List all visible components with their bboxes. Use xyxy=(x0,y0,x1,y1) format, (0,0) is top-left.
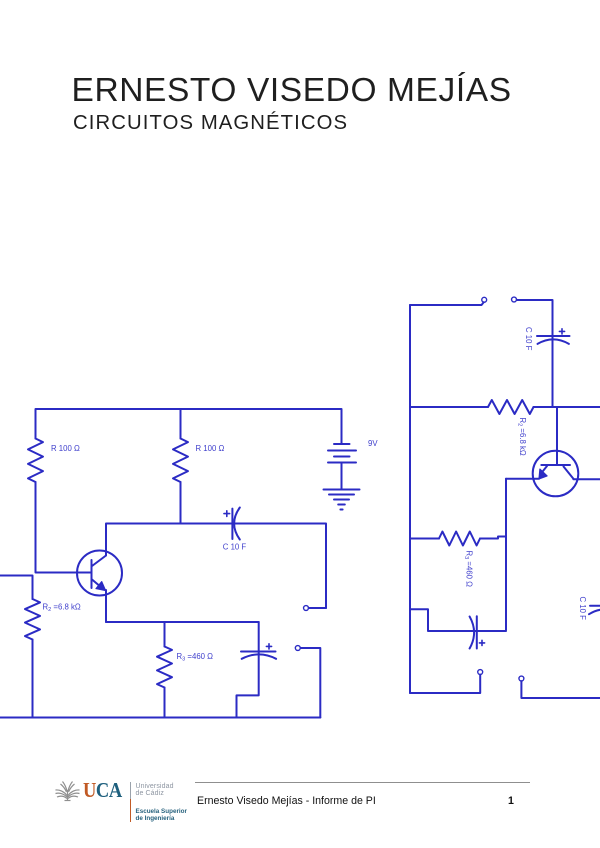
capacitor C2 (emitter bypass) xyxy=(241,644,276,659)
wire terminal 1 xyxy=(309,607,326,609)
footer xyxy=(54,780,81,802)
svg-text:C 10 F: C 10 F xyxy=(524,327,533,351)
resistor R2' 6.8kΩ (rotated) xyxy=(488,400,534,414)
wire R 100 (right) to collector rail xyxy=(180,482,182,524)
wire base rail (rotated) xyxy=(410,406,488,408)
resistor R3 460Ω xyxy=(157,647,172,688)
capacitor C5 (page edge, partial) xyxy=(589,606,600,614)
wire R3' rail xyxy=(410,538,439,540)
terminal input A xyxy=(482,297,487,302)
wire collector rail xyxy=(106,524,326,609)
resistor R 100 Ω (right) xyxy=(173,439,188,483)
wire input stub to R2 xyxy=(0,576,33,600)
wire top rail (left circuit) xyxy=(36,409,342,444)
wire top rail (rotated) xyxy=(410,302,484,305)
wire emitter vertical xyxy=(105,590,107,622)
svg-text:R 100 Ω: R 100 Ω xyxy=(196,444,225,453)
wire bypass branch xyxy=(237,622,259,718)
wire emitter vertical (rotated) xyxy=(505,479,507,630)
wire emitter lead (rotated) xyxy=(506,478,539,480)
terminal output 1 xyxy=(304,606,309,611)
terminal output A' xyxy=(478,670,483,675)
capacitor C1 10F (coupling) xyxy=(224,508,240,540)
svg-text:R 100 Ω: R 100 Ω xyxy=(51,444,80,453)
svg-text:C 10 F: C 10 F xyxy=(578,597,587,621)
svg-text:R3 =460 Ω: R3 =460 Ω xyxy=(463,551,473,588)
terminal input B xyxy=(512,297,517,302)
wire terminal B to C3 xyxy=(517,300,553,407)
svg-text:R3 =460 Ω: R3 =460 Ω xyxy=(177,652,214,662)
wire R3' to emitter vertical xyxy=(480,537,506,539)
wire R2 bottom xyxy=(32,640,34,718)
wire right lead to page edge xyxy=(573,478,600,480)
wire R3 top lead xyxy=(164,622,166,647)
wire output B' to page edge xyxy=(521,681,600,698)
resistor R2 6.8kΩ xyxy=(25,599,40,640)
capacitor C4 (rotated bypass) xyxy=(470,616,485,648)
wire bottom rail xyxy=(0,717,320,719)
wire bypass branch (rotated) xyxy=(410,609,506,631)
wire left vertical to base xyxy=(36,482,92,573)
wire terminal 2 xyxy=(301,648,321,718)
svg-text:R2 =6.8 kΩ: R2 =6.8 kΩ xyxy=(517,418,527,456)
wire second branch xyxy=(180,409,182,439)
wire R3 bottom xyxy=(164,688,166,718)
battery 9V xyxy=(328,444,356,490)
wire collector vertical (rotated) xyxy=(556,408,558,466)
transistor Q1 xyxy=(77,551,122,596)
transistor Q2 (rotated) xyxy=(533,451,579,497)
svg-text:9V: 9V xyxy=(368,439,378,448)
wire bottom left (rotated) xyxy=(410,675,480,693)
wire left vertical (rotated circuit) xyxy=(409,305,411,693)
wire emitter rail xyxy=(106,621,259,623)
svg-text:C 10 F: C 10 F xyxy=(223,543,247,552)
terminal output B' xyxy=(519,676,524,681)
ground xyxy=(324,490,360,510)
svg-text:R2 =6.8 kΩ: R2 =6.8 kΩ xyxy=(43,603,81,613)
capacitor C3 10F (rotated coupling) xyxy=(537,329,570,344)
terminal output 2 xyxy=(295,646,300,651)
resistor R 100 Ω (left) xyxy=(28,439,43,483)
wire rail to page edge xyxy=(534,406,600,408)
resistor R3' 460Ω (rotated) xyxy=(439,532,480,546)
